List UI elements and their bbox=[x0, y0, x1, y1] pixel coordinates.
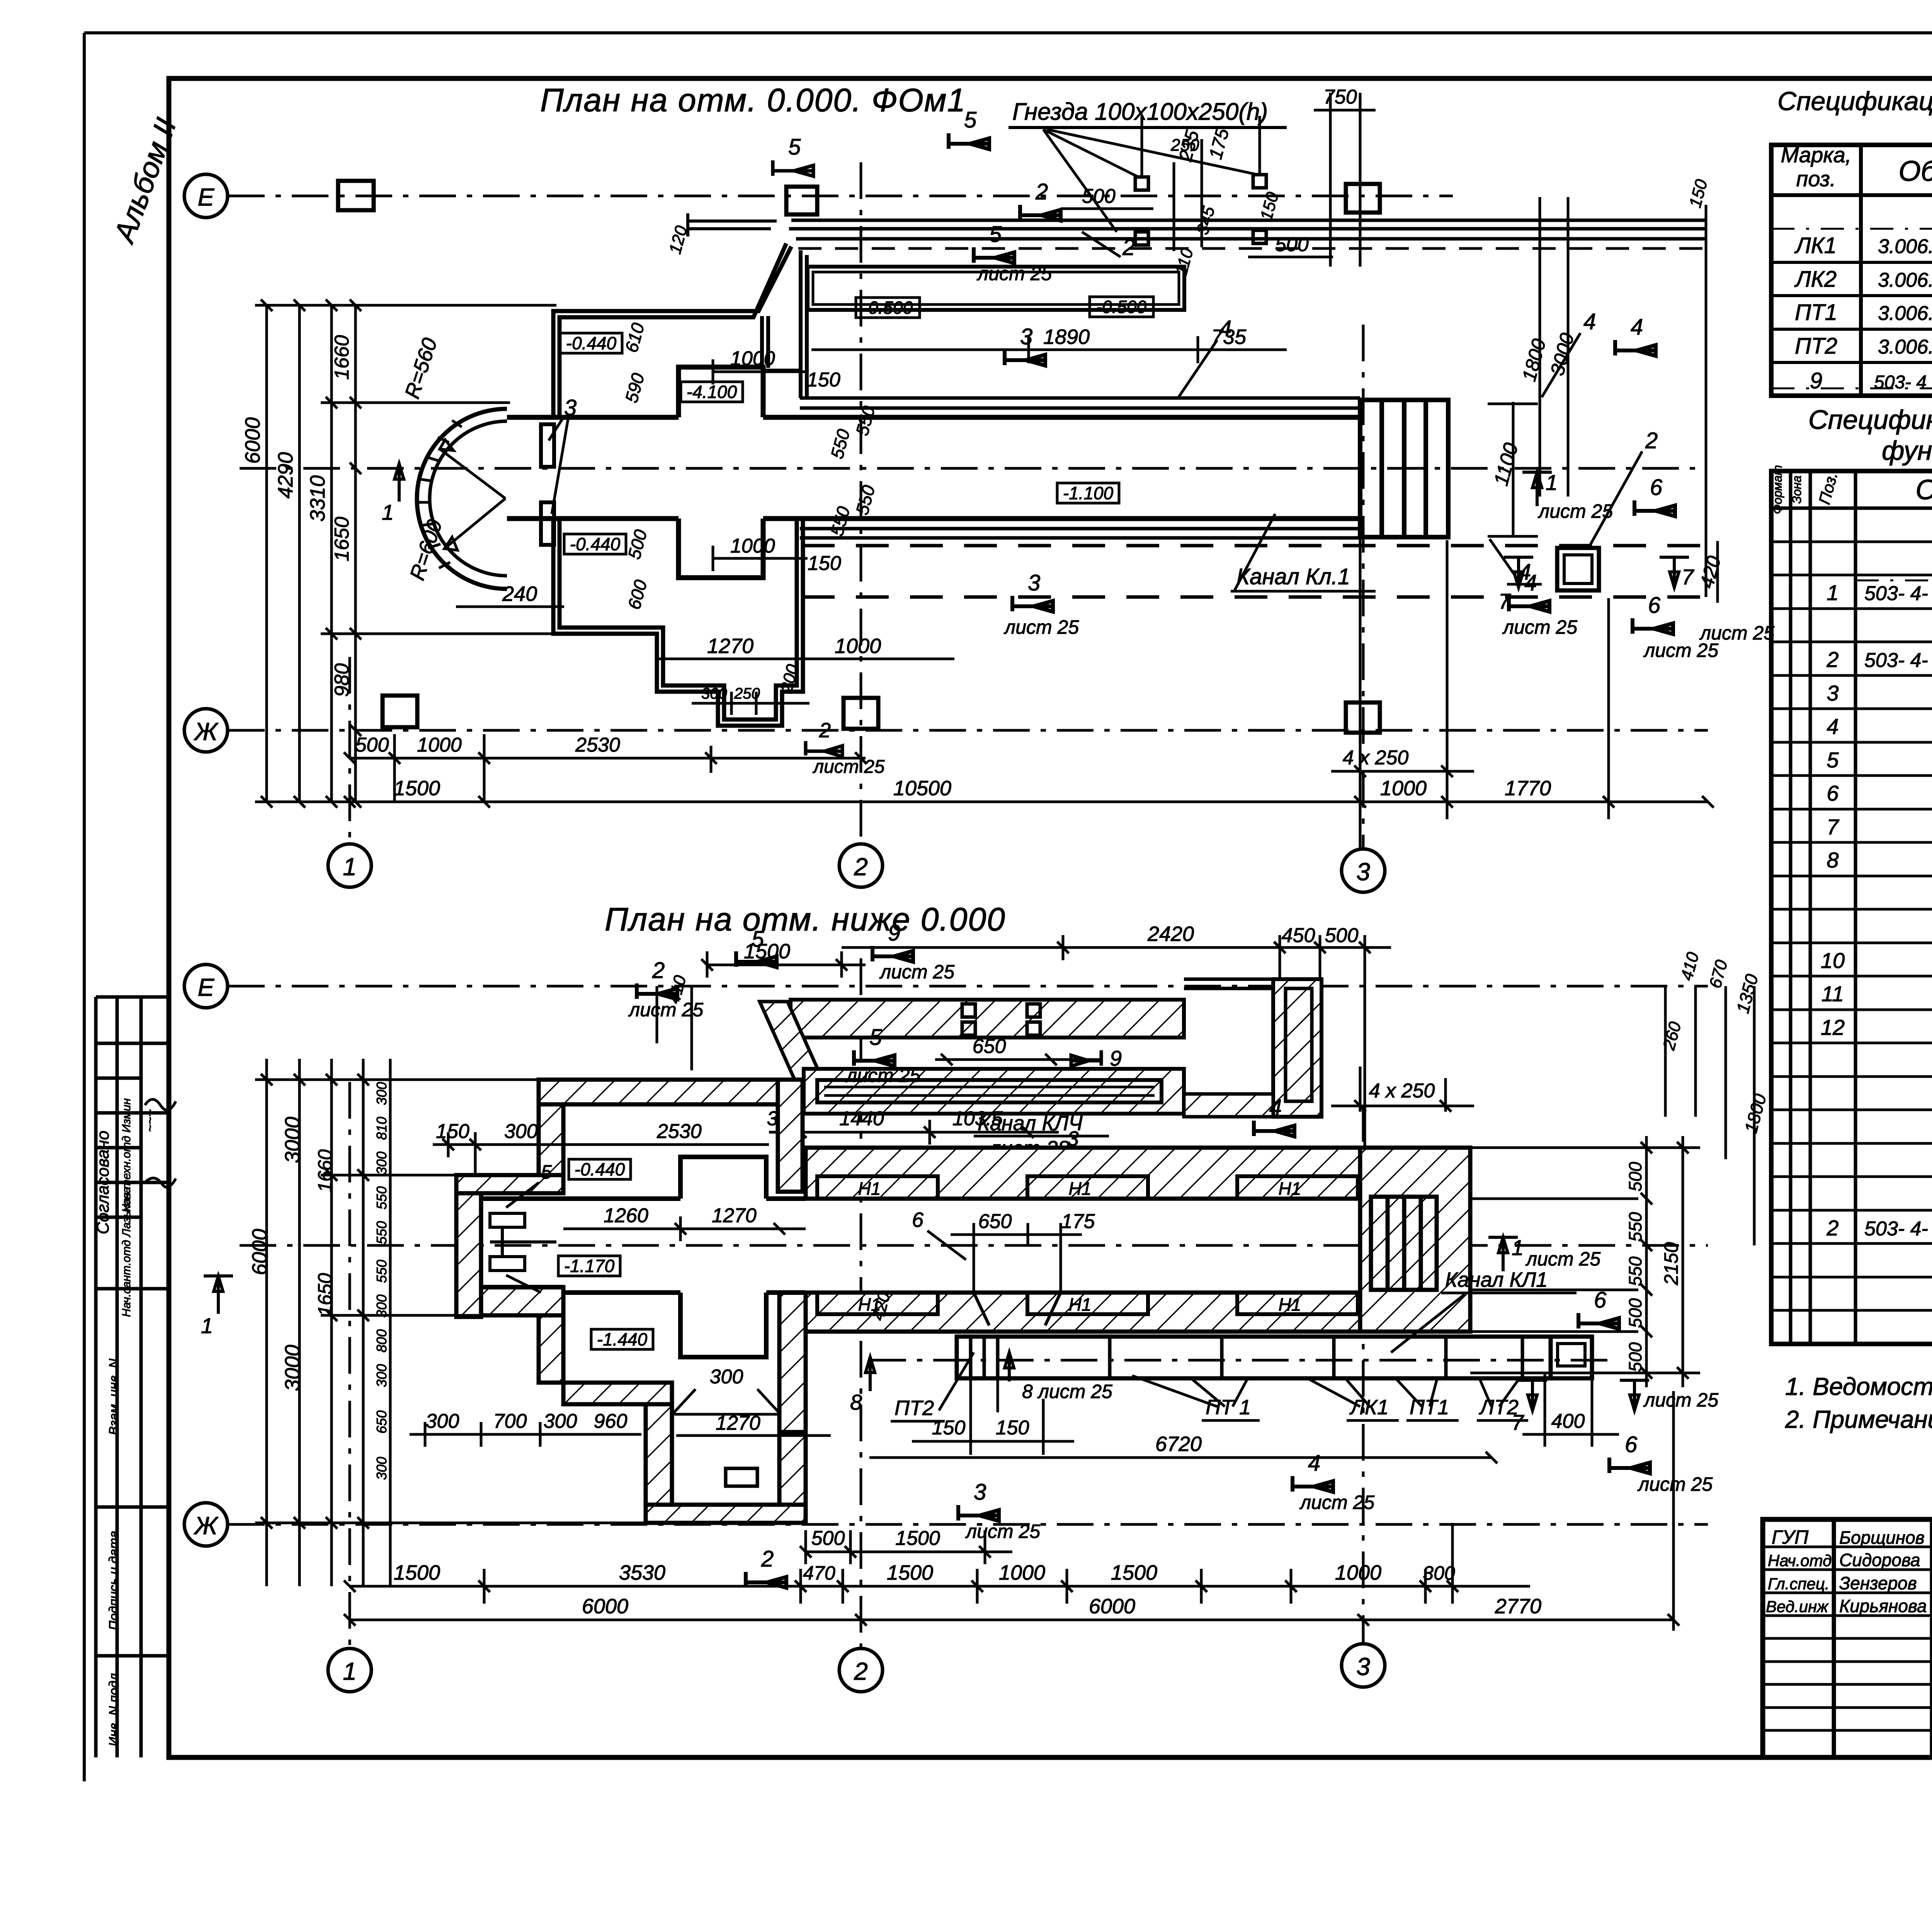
svg-text:фундамента ФОм1, канала КЛ1: фундамента ФОм1, канала КЛ1. bbox=[1882, 435, 1932, 466]
main frame bbox=[169, 78, 1932, 1757]
LEFT MARGIN SIGNATURE BOXES bbox=[94, 997, 176, 1757]
main channel top wall band bbox=[806, 1148, 1470, 1199]
svg-text:3: 3 bbox=[1356, 1653, 1370, 1681]
svg-text:3000: 3000 bbox=[281, 1117, 304, 1163]
svg-text:500: 500 bbox=[1625, 1298, 1645, 1328]
svg-text:1: 1 bbox=[1512, 1235, 1524, 1260]
svg-text:12: 12 bbox=[1821, 1015, 1845, 1039]
dim 2420 450 500 top bbox=[842, 935, 1391, 1264]
svg-text:810: 810 bbox=[374, 1117, 389, 1140]
dims 300 700 300 960 bbox=[410, 1422, 641, 1447]
8 list 25 bbox=[1005, 1352, 1014, 1381]
svg-text:3.006.1-2/82 вып.1-1: 3.006.1-2/82 вып.1-1 bbox=[1878, 269, 1932, 291]
dims 300 250 200 small bbox=[692, 692, 810, 715]
wall W7 bbox=[539, 1315, 563, 1383]
svg-text:Нач.сант.отд Лазькова: Нач.сант.отд Лазькова bbox=[120, 1187, 133, 1317]
PLAN 2 bbox=[184, 901, 1770, 1692]
svg-text:План на отм. 0.000. ФОм1: План на отм. 0.000. ФОм1 bbox=[540, 82, 966, 118]
right vertical dims plan2 bbox=[1470, 1136, 1700, 1387]
svg-text:ГУП: ГУП bbox=[1772, 1526, 1809, 1548]
svg-text:300: 300 bbox=[374, 1364, 389, 1387]
wall W10 bbox=[646, 1505, 806, 1523]
svg-text:Зензеров: Зензеров bbox=[1839, 1573, 1917, 1593]
svg-text:-1.170: -1.170 bbox=[564, 1256, 615, 1276]
gnezda leaders bbox=[1043, 129, 1258, 232]
svg-text:ЛК2: ЛК2 bbox=[1794, 267, 1837, 292]
svg-text:лист 25: лист 25 bbox=[1643, 1389, 1718, 1411]
svg-text:8: 8 bbox=[1827, 848, 1838, 872]
axis 1 vertical bbox=[349, 657, 351, 843]
svg-text:1500: 1500 bbox=[895, 1527, 940, 1550]
svg-text:1650: 1650 bbox=[314, 1273, 336, 1316]
corridor bottom notch bbox=[679, 519, 763, 578]
level box -1.100 bbox=[1057, 483, 1119, 503]
wall W13 bbox=[779, 1293, 806, 1432]
dim 1000 150 upper notch bbox=[713, 359, 808, 384]
svg-text:-0.500: -0.500 bbox=[862, 298, 913, 318]
bottom chain 3 plan2 bbox=[344, 1391, 1679, 1631]
svg-text:1660: 1660 bbox=[314, 1149, 336, 1192]
svg-text:7: 7 bbox=[1512, 1410, 1524, 1434]
svg-text:3530: 3530 bbox=[619, 1561, 665, 1584]
gnezda squares bbox=[1135, 175, 1266, 245]
svg-text:Инв. N подл.: Инв. N подл. bbox=[107, 1670, 121, 1747]
flag 2 bottom plan2 bbox=[746, 1572, 786, 1588]
svg-text:Марка,: Марка, bbox=[1781, 143, 1852, 167]
svg-text:Гл.спец.: Гл.спец. bbox=[1768, 1575, 1830, 1593]
svg-text:300: 300 bbox=[544, 1410, 577, 1432]
svg-text:300: 300 bbox=[710, 1366, 743, 1388]
svg-text:6: 6 bbox=[912, 1208, 924, 1232]
end wall arc inner bbox=[430, 421, 507, 576]
dims 300 1440 103.5 bbox=[769, 1120, 1059, 1145]
svg-text:4: 4 bbox=[1631, 315, 1643, 340]
svg-text:1000: 1000 bbox=[417, 734, 462, 756]
dim 1100 vertical bbox=[1488, 402, 1538, 537]
svg-text:300: 300 bbox=[426, 1410, 459, 1432]
dim 1270 1000 lower bbox=[657, 646, 954, 672]
svg-text:250: 250 bbox=[1170, 136, 1199, 155]
upper channel slot bbox=[817, 1080, 1162, 1102]
svg-text:Обозначение: Обозначение bbox=[1898, 155, 1932, 187]
wall W9 bbox=[646, 1404, 672, 1505]
svg-text:4 х 250: 4 х 250 bbox=[1369, 1080, 1435, 1102]
axis E circle bbox=[184, 174, 228, 218]
svg-text:2: 2 bbox=[819, 719, 831, 742]
svg-text:1650: 1650 bbox=[331, 517, 353, 561]
marker 1 list25 right bbox=[1522, 472, 1552, 506]
svg-text:Н1: Н1 bbox=[1279, 1294, 1301, 1315]
svg-text:2: 2 bbox=[854, 1657, 868, 1685]
marker 7 plan2 bbox=[1518, 1380, 1547, 1410]
svg-text:лист 25: лист 25 bbox=[1299, 1492, 1374, 1513]
svg-text:11: 11 bbox=[1821, 981, 1844, 1006]
svg-text:План на отм. ниже 0.000: План на отм. ниже 0.000 bbox=[605, 901, 1006, 937]
svg-text:6: 6 bbox=[1648, 593, 1661, 618]
svg-text:2: 2 bbox=[761, 1546, 774, 1572]
svg-text:1660: 1660 bbox=[331, 335, 353, 380]
marker 1 arrow bbox=[395, 464, 404, 502]
svg-text:Обозначение: Обозначение bbox=[1915, 475, 1932, 505]
level box -1.440 plan2 bbox=[591, 1329, 653, 1349]
svg-text:Канал КЛ1: Канал КЛ1 bbox=[1445, 1268, 1548, 1291]
dims 150 300 2530 bbox=[433, 1132, 769, 1175]
level box -0.440 upper bbox=[560, 333, 622, 353]
svg-text:1500: 1500 bbox=[394, 1561, 440, 1584]
svg-text:6: 6 bbox=[1594, 1288, 1607, 1313]
block right wall verticals bbox=[762, 316, 801, 371]
dim 400 bbox=[1522, 1373, 1619, 1447]
flag 4 list25 plan2 bbox=[1293, 1476, 1333, 1492]
upper channel inner rect bbox=[808, 267, 1184, 310]
table 2 grid bbox=[1771, 471, 1932, 1344]
svg-text:3: 3 bbox=[1028, 570, 1040, 595]
svg-text:3.006.1-2/82 вып.1-2: 3.006.1-2/82 вып.1-2 bbox=[1878, 336, 1932, 358]
svg-text:8: 8 bbox=[850, 1390, 862, 1414]
svg-text:1500: 1500 bbox=[1111, 1561, 1157, 1584]
radius leaders bbox=[440, 440, 505, 550]
svg-text:1000: 1000 bbox=[1380, 777, 1427, 800]
svg-text:500: 500 bbox=[811, 1527, 845, 1550]
cross up arm bbox=[680, 1157, 766, 1199]
dim 4x250 plan2 bbox=[1331, 1067, 1474, 1112]
axis verticals plan2 bbox=[350, 958, 1363, 1648]
svg-text:лист 25: лист 25 bbox=[1699, 622, 1774, 644]
dim 750 bbox=[1314, 93, 1376, 267]
svg-text:-0.440: -0.440 bbox=[566, 333, 617, 353]
title block outer bbox=[1763, 1519, 1932, 1757]
flag 4 top plan2 bbox=[1254, 1121, 1294, 1136]
svg-text:2: 2 bbox=[1826, 647, 1838, 672]
svg-text:980: 980 bbox=[331, 663, 353, 697]
corridor edges left blob bbox=[481, 1199, 806, 1293]
svg-text:550: 550 bbox=[1625, 1212, 1645, 1242]
dims 1260 1270 bbox=[563, 1216, 806, 1241]
svg-text:400: 400 bbox=[1551, 1410, 1585, 1432]
svg-text:550: 550 bbox=[374, 1260, 389, 1283]
axis 2 vertical bbox=[860, 162, 862, 843]
svg-text:7: 7 bbox=[1498, 589, 1511, 613]
svg-text:650: 650 bbox=[374, 1410, 389, 1434]
svg-text:150: 150 bbox=[932, 1417, 966, 1439]
svg-text:503- 4- 46. 87 -КЖИ - КР 1: 503- 4- 46. 87 -КЖИ - КР 1 bbox=[1864, 582, 1932, 605]
dim 240 bbox=[456, 556, 564, 612]
H1 plates bottom band bbox=[817, 1293, 1358, 1315]
section flag 5 top bbox=[949, 133, 989, 149]
svg-text:Ж: Ж bbox=[194, 718, 219, 745]
svg-text:4: 4 bbox=[1308, 1451, 1320, 1476]
svg-text:Н1: Н1 bbox=[1279, 1179, 1301, 1199]
leader 2 to square bbox=[1588, 451, 1642, 549]
section flag 3 mid bbox=[1005, 350, 1045, 366]
svg-text:4 х 250: 4 х 250 bbox=[1343, 747, 1409, 769]
top band W1 bbox=[539, 1080, 791, 1104]
svg-text:1000: 1000 bbox=[1335, 1561, 1381, 1584]
svg-text:300: 300 bbox=[504, 1120, 538, 1143]
end wall arc outer bbox=[417, 409, 507, 589]
svg-text:-1.440: -1.440 bbox=[597, 1329, 648, 1349]
axis Zh circle bbox=[184, 709, 228, 752]
svg-text:4: 4 bbox=[1827, 714, 1838, 738]
level box -0.440 plan2 bbox=[569, 1159, 631, 1179]
svg-text:1: 1 bbox=[343, 1657, 357, 1685]
svg-text:3000: 3000 bbox=[281, 1345, 304, 1391]
right end wall block bbox=[1360, 1148, 1470, 1332]
dim 420 rotated bbox=[1716, 541, 1719, 603]
axis 3 vertical bbox=[1362, 325, 1365, 848]
wall W2 bbox=[778, 1080, 803, 1192]
right gnezda column line bbox=[1705, 205, 1708, 597]
svg-text:1. Ведомость расхода стали: 1. Ведомость расхода стали на элемент см… bbox=[1785, 1373, 1932, 1400]
svg-text:1: 1 bbox=[343, 853, 357, 881]
svg-text:лист 25: лист 25 bbox=[879, 961, 954, 983]
upper channel walls band bbox=[804, 1069, 1184, 1114]
svg-text:лист 25: лист 25 bbox=[965, 1521, 1040, 1542]
column squares on axes bbox=[338, 181, 1380, 733]
dims 1800 3000 rotated bbox=[1540, 197, 1568, 497]
svg-text:-0.440: -0.440 bbox=[570, 534, 621, 554]
svg-text:Спецификация монолитной: Спецификация монолитной конструкции bbox=[1808, 405, 1932, 435]
small detail in left room bbox=[490, 1213, 556, 1271]
flag 9 list25 top bbox=[872, 946, 913, 962]
dim 650 with 9 bbox=[935, 1054, 1101, 1065]
svg-text:2: 2 bbox=[652, 958, 665, 983]
svg-text:поз.: поз. bbox=[1796, 167, 1836, 191]
marker 6 list25 plan2 bbox=[1609, 1458, 1650, 1473]
bottom dim chain A bbox=[344, 734, 867, 802]
marker 1 list25 plan2 bbox=[1488, 1237, 1518, 1271]
svg-text:450: 450 bbox=[1282, 924, 1315, 947]
stamp column verticals bbox=[96, 997, 169, 1757]
channel vertical connection bbox=[801, 250, 807, 398]
marker 7 right bbox=[1660, 557, 1689, 587]
small tab detail bbox=[726, 1468, 757, 1486]
svg-text:5: 5 bbox=[541, 1161, 552, 1183]
svg-text:-4.100: -4.100 bbox=[687, 382, 737, 402]
svg-text:5: 5 bbox=[989, 222, 1002, 247]
svg-text:1: 1 bbox=[382, 500, 394, 524]
svg-text:лист 25: лист 25 bbox=[976, 263, 1052, 284]
svg-text:5: 5 bbox=[1827, 748, 1839, 772]
svg-text:лист 25: лист 25 bbox=[1003, 616, 1079, 638]
left dim chains plan2 bbox=[255, 1059, 646, 1586]
svg-text:Н1: Н1 bbox=[858, 1179, 881, 1199]
svg-text:960: 960 bbox=[594, 1410, 628, 1432]
svg-text:6000: 6000 bbox=[1089, 1595, 1135, 1618]
arc detail bars bbox=[541, 424, 554, 467]
bottom chain 1 plan2 bbox=[800, 1530, 1012, 1564]
svg-text:500: 500 bbox=[1625, 1342, 1645, 1372]
svg-text:Н1: Н1 bbox=[1069, 1179, 1092, 1199]
level box -0.440 lower bbox=[564, 534, 626, 554]
svg-text:1: 1 bbox=[1546, 470, 1558, 495]
svg-text:500: 500 bbox=[1275, 233, 1309, 256]
horizontal W4 bbox=[456, 1175, 563, 1193]
svg-text:10500: 10500 bbox=[893, 777, 951, 800]
svg-text:1270: 1270 bbox=[712, 1204, 757, 1227]
svg-text:300: 300 bbox=[374, 1294, 389, 1318]
flag 3 list25 plan2 bbox=[958, 1505, 999, 1521]
svg-text:503- 4- 46. 87 -КЖИ - МН1: 503- 4- 46. 87 -КЖИ - МН1 bbox=[1864, 649, 1932, 672]
svg-text:ЛК1: ЛК1 bbox=[1794, 233, 1837, 258]
svg-text:6000: 6000 bbox=[248, 1229, 271, 1275]
svg-text:300: 300 bbox=[701, 685, 727, 702]
svg-text:300: 300 bbox=[374, 1082, 389, 1105]
svg-text:лист 25: лист 25 bbox=[1525, 1248, 1600, 1270]
svg-text:9: 9 bbox=[888, 920, 900, 946]
svg-text:150: 150 bbox=[436, 1120, 469, 1143]
svg-text:1500: 1500 bbox=[887, 1561, 933, 1584]
svg-text:1: 1 bbox=[201, 1313, 213, 1338]
bottom dim chain B bbox=[344, 539, 1714, 850]
svg-text:1000: 1000 bbox=[730, 535, 775, 557]
marker 6 lower list25 bbox=[1633, 618, 1673, 634]
svg-text:Формат: Формат bbox=[1770, 465, 1784, 514]
level box -1.170 plan2 bbox=[558, 1256, 620, 1276]
svg-text:6: 6 bbox=[1625, 1432, 1638, 1457]
svg-text:9: 9 bbox=[1110, 1046, 1122, 1070]
svg-text:2: 2 bbox=[1122, 235, 1135, 260]
svg-text:8 лист 25: 8 лист 25 bbox=[1022, 1381, 1112, 1402]
svg-text:1270: 1270 bbox=[707, 634, 753, 658]
svg-text:Гнезда 100х100х250(h): Гнезда 100х100х250(h) bbox=[1012, 99, 1268, 125]
svg-text:ПТ2: ПТ2 bbox=[895, 1397, 934, 1420]
svg-text:500: 500 bbox=[1325, 924, 1359, 947]
axis E line plan2 bbox=[228, 985, 1708, 988]
left column W3 bbox=[456, 1193, 481, 1317]
list 25 right bbox=[1620, 1380, 1649, 1410]
lower-left block outline bbox=[553, 519, 803, 726]
svg-text:5: 5 bbox=[869, 1025, 882, 1050]
svg-text:4: 4 bbox=[1524, 570, 1537, 595]
svg-text:5: 5 bbox=[788, 134, 801, 160]
cross down arm bbox=[680, 1293, 766, 1357]
svg-text:6: 6 bbox=[1827, 781, 1839, 805]
svg-text:700: 700 bbox=[493, 1410, 527, 1432]
channel precast edges bottom bbox=[800, 529, 1360, 538]
svg-text:Е: Е bbox=[198, 183, 215, 211]
svg-text:750: 750 bbox=[1323, 86, 1357, 108]
section flag 3 list25 bbox=[1012, 596, 1053, 612]
TABLE 1 bbox=[1771, 87, 1932, 466]
marker 1 plan2 left bbox=[204, 1276, 233, 1314]
svg-text:3.006.1- 2/82 вып.1-2: 3.006.1- 2/82 вып.1-2 bbox=[1878, 302, 1932, 325]
svg-text:1: 1 bbox=[1827, 580, 1838, 605]
section flag 4 list25 bbox=[1509, 596, 1549, 612]
svg-text:1000: 1000 bbox=[999, 1561, 1045, 1584]
svg-text:150: 150 bbox=[807, 369, 840, 391]
dim 500 upper flag bbox=[1061, 208, 1153, 210]
svg-text:-0.500: -0.500 bbox=[1096, 297, 1147, 317]
svg-text:2150: 2150 bbox=[1660, 1242, 1682, 1285]
svg-text:4: 4 bbox=[1269, 1095, 1282, 1120]
svg-text:240: 240 bbox=[502, 582, 537, 606]
svg-text:550: 550 bbox=[374, 1221, 389, 1244]
svg-text:2: 2 bbox=[854, 853, 868, 881]
section flag 5 list25 bbox=[974, 247, 1014, 263]
channel end ladder bbox=[1360, 400, 1448, 537]
upper arm band near E bbox=[791, 1000, 1184, 1038]
svg-text:1770: 1770 bbox=[1505, 777, 1551, 800]
svg-text:500: 500 bbox=[1082, 185, 1116, 208]
end square plan2 bbox=[1551, 1337, 1592, 1378]
H1 plates top band bbox=[817, 1176, 1358, 1199]
svg-text:2: 2 bbox=[1645, 428, 1658, 453]
svg-text:6720: 6720 bbox=[1155, 1432, 1202, 1456]
svg-text:650: 650 bbox=[978, 1210, 1012, 1233]
axis E line bbox=[228, 195, 1453, 197]
svg-text:500: 500 bbox=[1625, 1162, 1645, 1191]
dim 6720 bbox=[869, 1452, 1497, 1463]
svg-text:175: 175 bbox=[1061, 1210, 1095, 1233]
corridor bottom edge bbox=[507, 516, 1360, 521]
precast strip bbox=[869, 1337, 1615, 1378]
flag 5 top bbox=[736, 951, 777, 967]
svg-text:лист 25: лист 25 bbox=[1502, 616, 1577, 638]
svg-text:550: 550 bbox=[374, 1186, 389, 1209]
svg-text:6: 6 bbox=[1650, 475, 1663, 500]
section flag 2 top bbox=[1020, 205, 1061, 221]
section flag 5 on axis E bbox=[773, 160, 813, 176]
slanted connector bbox=[760, 1002, 831, 1098]
upper channel band bbox=[789, 220, 1706, 239]
svg-text:3310: 3310 bbox=[306, 475, 329, 522]
svg-text:Н1: Н1 bbox=[1069, 1294, 1092, 1315]
svg-text:4: 4 bbox=[1583, 309, 1596, 334]
svg-text:лист 25: лист 25 bbox=[812, 757, 885, 777]
svg-text:1500: 1500 bbox=[744, 940, 790, 963]
axis Zh line plan2 bbox=[228, 1523, 1708, 1526]
dim 1000 150 lower notch bbox=[713, 546, 808, 571]
arc radial ticks bbox=[418, 420, 462, 568]
level box -0.500 a bbox=[856, 298, 920, 318]
svg-text:ЛК1: ЛК1 bbox=[1349, 1396, 1389, 1419]
svg-text:300: 300 bbox=[1423, 1562, 1455, 1584]
svg-text:1890: 1890 bbox=[1043, 325, 1090, 349]
svg-text:300: 300 bbox=[374, 1152, 389, 1175]
corridor centerline bbox=[240, 467, 1706, 470]
flag 3 small bbox=[1054, 1150, 1090, 1165]
svg-text:650: 650 bbox=[973, 1035, 1006, 1058]
svg-text:1000: 1000 bbox=[835, 634, 881, 658]
svg-text:3: 3 bbox=[1827, 681, 1838, 705]
flag 5 list25 mid bbox=[854, 1050, 895, 1066]
svg-text:7: 7 bbox=[1682, 565, 1694, 589]
svg-text:1000: 1000 bbox=[730, 347, 775, 370]
svg-text:5: 5 bbox=[964, 107, 977, 133]
corridor top edge bbox=[507, 415, 1360, 420]
svg-text:Спецификация элементов сборн: Спецификация элементов сборной конструкц… bbox=[1777, 87, 1932, 116]
left wall W5 bbox=[539, 1104, 563, 1175]
channel precast edges top bbox=[800, 398, 1360, 408]
marker 6 plan2 a bbox=[1578, 1313, 1619, 1329]
axis Zh line bbox=[228, 729, 1708, 732]
svg-text:2: 2 bbox=[1035, 179, 1048, 204]
svg-text:1270: 1270 bbox=[716, 1412, 760, 1434]
gnezda dim verticals bbox=[1142, 116, 1260, 251]
svg-text:лист 25: лист 25 bbox=[1637, 1473, 1713, 1495]
svg-text:Борщинов: Борщинов bbox=[1839, 1527, 1925, 1548]
wall W8 bbox=[563, 1383, 672, 1404]
svg-text:150: 150 bbox=[996, 1417, 1029, 1439]
level box -0.500 b bbox=[1090, 297, 1153, 317]
table 1 grid bbox=[1771, 145, 1932, 396]
svg-text:ПТ2: ПТ2 bbox=[1795, 333, 1837, 359]
section flag 4 right bbox=[1615, 340, 1656, 356]
svg-text:Подпись и дата: Подпись и дата bbox=[107, 1531, 121, 1630]
svg-text:Канал Кл.1: Канал Кл.1 bbox=[1236, 564, 1350, 589]
flag 2 list 25 chainA bbox=[806, 741, 842, 757]
